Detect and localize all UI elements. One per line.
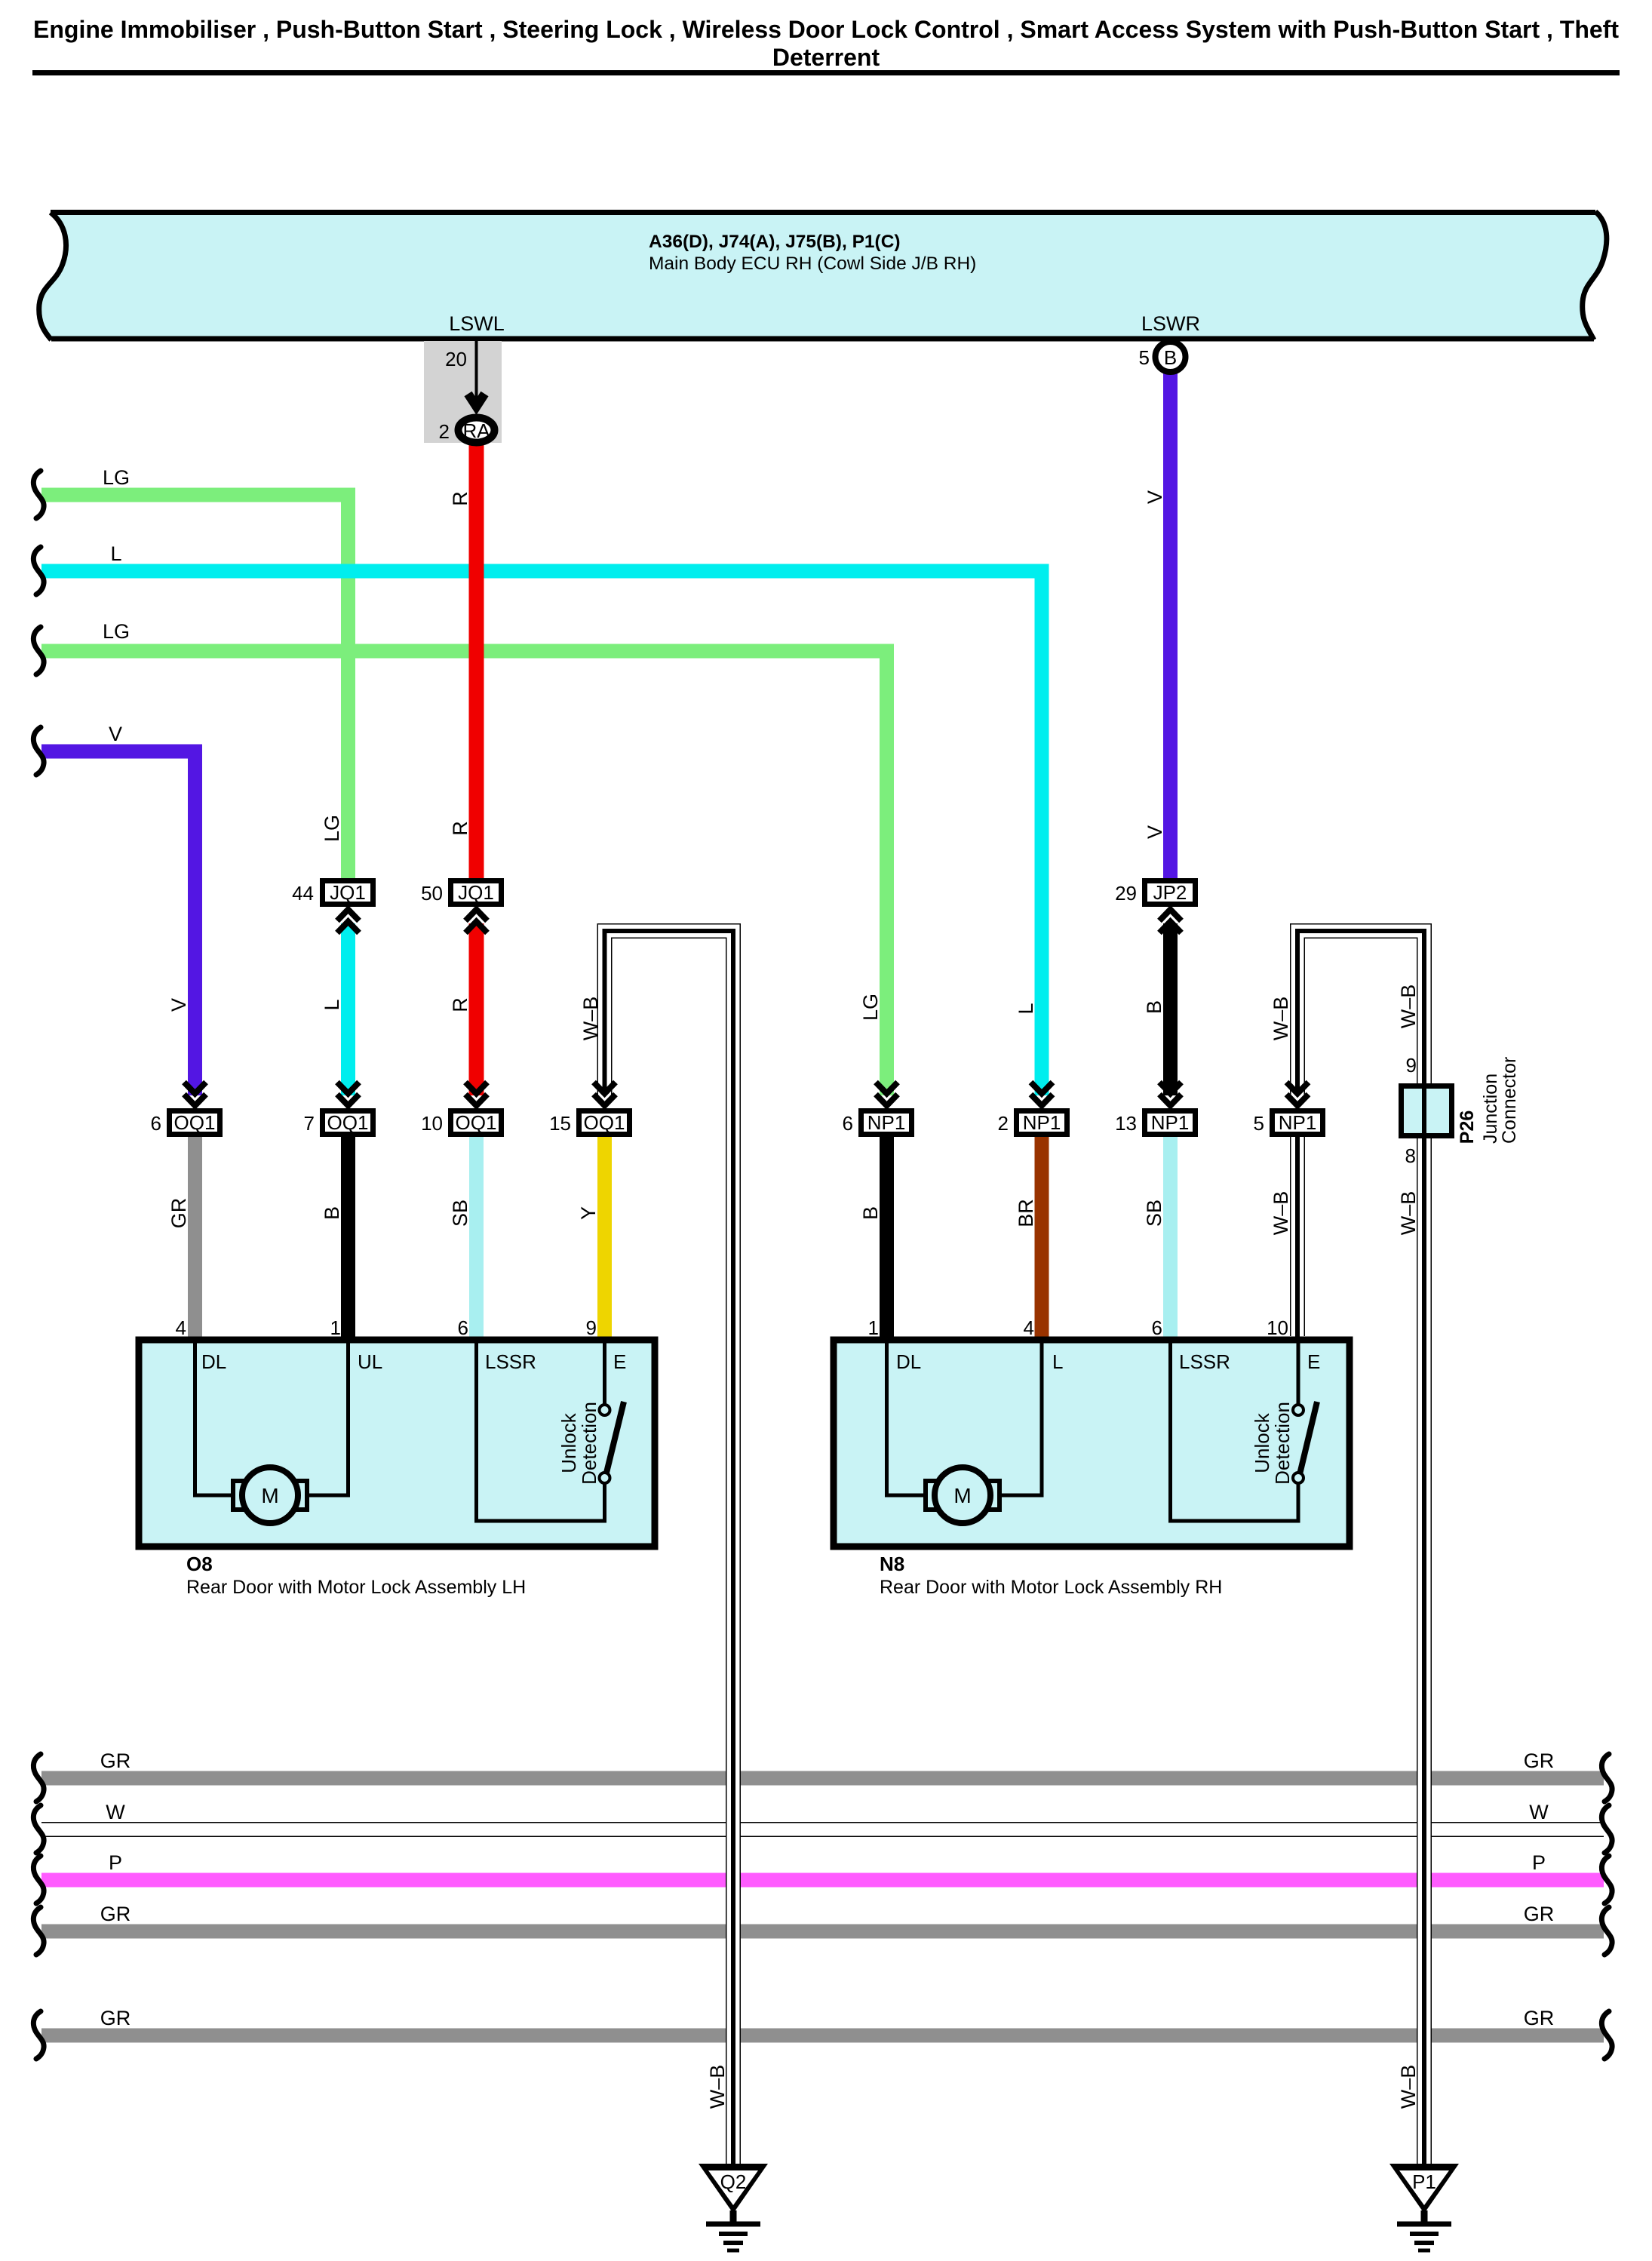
svg-text:6: 6: [1152, 1316, 1162, 1339]
break symbol GR2 right: [1601, 1907, 1612, 1955]
N8 terminal L line: [999, 1340, 1042, 1495]
svg-text:W–B: W–B: [706, 2065, 729, 2109]
wire GR horizontal bottom 1: [41, 1771, 1604, 1786]
svg-text:P: P: [1532, 1851, 1546, 1874]
svg-text:6: 6: [151, 1112, 161, 1135]
component N8 Rear Door with Motor Lock Assembly RH: [834, 1316, 1350, 1598]
svg-text:LSWL: LSWL: [449, 312, 505, 335]
svg-text:29: 29: [1115, 882, 1137, 905]
svg-text:NP1: NP1: [1023, 1111, 1061, 1134]
svg-text:9: 9: [1406, 1054, 1417, 1077]
LSWR terminal drop: connector B pin 5: [1139, 342, 1186, 372]
svg-text:Engine Immobiliser , Push-Butt: Engine Immobiliser , Push-Button Start ,…: [33, 16, 1619, 43]
svg-text:SB: SB: [1143, 1200, 1165, 1227]
svg-text:B: B: [321, 1206, 343, 1220]
svg-text:13: 13: [1115, 1112, 1137, 1135]
svg-text:DL: DL: [201, 1350, 226, 1373]
svg-text:V: V: [1144, 490, 1166, 504]
svg-text:9: 9: [586, 1316, 597, 1339]
svg-text:LSSR: LSSR: [1179, 1350, 1230, 1373]
svg-text:UnlockDetection: UnlockDetection: [557, 1402, 600, 1485]
svg-text:5: 5: [1254, 1112, 1264, 1135]
svg-text:7: 7: [304, 1112, 315, 1135]
svg-text:JQ1: JQ1: [330, 881, 366, 904]
junction connector P26: [1402, 1054, 1521, 1167]
svg-text:L: L: [110, 542, 121, 565]
svg-text:R: R: [449, 997, 471, 1012]
svg-text:10: 10: [1267, 1316, 1288, 1339]
wire GR below OQ1-6 to O8 pin 4: [188, 1136, 202, 1340]
svg-text:R: R: [449, 821, 471, 836]
svg-text:OQ1: OQ1: [327, 1111, 369, 1134]
svg-text:W–B: W–B: [1397, 985, 1420, 1029]
svg-text:E: E: [613, 1350, 626, 1373]
svg-text:5: 5: [1139, 346, 1150, 369]
svg-text:W–B: W–B: [1270, 1191, 1292, 1236]
svg-text:LSWR: LSWR: [1141, 312, 1200, 335]
ground P1: [1389, 2164, 1459, 2250]
wire P horizontal: [41, 1873, 1604, 1888]
svg-text:Main Body ECU RH (Cowl Side J/: Main Body ECU RH (Cowl Side J/B RH): [649, 253, 976, 274]
wire R between JQ1-50 and OQ1-10: [469, 923, 484, 1095]
break symbol V left: [33, 727, 44, 775]
wire V horizontal to OQ1-6: [41, 751, 195, 1095]
ECU box Main Body ECU RH A36(D) J74(A) J75(B) P1(C): [39, 212, 1607, 340]
break symbol GR3 left: [33, 2011, 44, 2059]
svg-text:6: 6: [458, 1316, 468, 1339]
break symbol W left: [33, 1805, 44, 1853]
svg-text:L: L: [321, 999, 343, 1010]
svg-text:GR: GR: [100, 1750, 131, 1772]
connector JQ1 pin 50: [421, 881, 501, 933]
svg-text:B: B: [1164, 346, 1177, 369]
wire LG horizontal 2 to NP1-6: [41, 651, 887, 1095]
wire Y below OQ1-15 to O8 pin 9: [597, 1136, 612, 1340]
svg-text:P1: P1: [1412, 2170, 1436, 2193]
svg-text:W–B: W–B: [1397, 1191, 1420, 1236]
svg-text:Rear Door with Motor Lock Asse: Rear Door with Motor Lock Assembly RH: [880, 1577, 1222, 1598]
break symbol W right: [1601, 1805, 1612, 1853]
svg-text:4: 4: [176, 1316, 186, 1339]
svg-text:LSSR: LSSR: [485, 1350, 536, 1373]
svg-text:Y: Y: [577, 1206, 600, 1220]
svg-text:L: L: [1015, 1003, 1037, 1014]
wire V vertical from LSWR B to JP2: [1163, 373, 1178, 878]
title rule: [32, 70, 1620, 75]
svg-text:LG: LG: [321, 815, 343, 842]
svg-text:P: P: [109, 1851, 122, 1874]
svg-text:GR: GR: [1524, 1750, 1555, 1772]
svg-text:R: R: [449, 491, 471, 506]
N8 motor M: [926, 1467, 999, 1523]
break symbol L left: [33, 547, 44, 594]
svg-text:OQ1: OQ1: [174, 1111, 216, 1134]
svg-text:GR: GR: [1524, 1903, 1555, 1925]
svg-text:6: 6: [843, 1112, 853, 1135]
wire B below NP1-6 to N8 pin 1: [880, 1136, 894, 1343]
svg-text:V: V: [167, 998, 190, 1012]
svg-text:LG: LG: [103, 620, 130, 643]
svg-text:15: 15: [549, 1112, 571, 1135]
svg-text:LG: LG: [859, 994, 882, 1021]
break symbol GR2 left: [33, 1907, 44, 1955]
wire L horizontal to NP1-2: [41, 571, 1042, 1095]
svg-text:NP1: NP1: [867, 1111, 906, 1134]
svg-text:Q2: Q2: [720, 2170, 747, 2193]
svg-text:O8: O8: [186, 1553, 213, 1575]
svg-text:Rear Door with Motor Lock Asse: Rear Door with Motor Lock Assembly LH: [186, 1577, 526, 1598]
svg-text:V: V: [109, 723, 122, 745]
svg-text:GR: GR: [167, 1198, 190, 1229]
connector OQ1 pin 7: [304, 1083, 373, 1135]
ground Q2: [699, 2164, 768, 2250]
svg-text:BR: BR: [1015, 1199, 1037, 1227]
svg-text:W: W: [1529, 1801, 1549, 1823]
connector JP2 pin 29: [1115, 881, 1195, 933]
wire LG horizontal 1 to JQ1-44: [41, 495, 349, 878]
svg-text:1: 1: [330, 1316, 341, 1339]
svg-text:W–B: W–B: [579, 997, 602, 1041]
wire SB below OQ1-10 to O8 pin 6: [469, 1136, 484, 1340]
connector JQ1 pin 44: [292, 881, 373, 933]
connector OQ1 pin 6: [151, 1083, 220, 1135]
svg-text:W–B: W–B: [1397, 2065, 1420, 2109]
wire W-B loop from OQ1-15 to ground Q2: [605, 931, 734, 2164]
svg-text:N8: N8: [880, 1553, 904, 1575]
wire W horizontal: [41, 1822, 1604, 1837]
svg-text:44: 44: [292, 882, 314, 905]
svg-text:JP2: JP2: [1153, 881, 1187, 904]
svg-text:NP1: NP1: [1279, 1111, 1317, 1134]
connector NP1 pin 2: [998, 1083, 1067, 1135]
break symbol GR1 right: [1601, 1754, 1612, 1802]
svg-text:1: 1: [868, 1316, 879, 1339]
connector OQ1 pin 10: [421, 1083, 501, 1135]
svg-text:GR: GR: [1524, 2007, 1555, 2029]
svg-text:2: 2: [439, 420, 450, 443]
LSWL terminal drop: shaded area, pin 20 arrow, connector RA pin 2: [424, 341, 502, 443]
svg-text:NP1: NP1: [1151, 1111, 1190, 1134]
N8 terminal DL line: [887, 1340, 926, 1495]
O8 terminal DL line: [195, 1340, 234, 1495]
svg-text:JQ1: JQ1: [458, 881, 494, 904]
break symbol P left: [33, 1856, 44, 1903]
wire GR horizontal bottom 2: [41, 1925, 1604, 1939]
O8 E line with unlock detection switch: [603, 1340, 606, 1405]
connector NP1 pin 13: [1115, 1083, 1195, 1135]
svg-text:L: L: [1052, 1350, 1063, 1373]
connector OQ1 pin 15: [549, 1083, 629, 1135]
wire GR horizontal bottom 3: [41, 2029, 1604, 2043]
wire SB below NP1-13 to N8 pin 6: [1163, 1136, 1178, 1340]
O8 motor M: [233, 1467, 307, 1523]
svg-text:E: E: [1307, 1350, 1320, 1373]
svg-text:A36(D), J74(A), J75(B), P1(C): A36(D), J74(A), J75(B), P1(C): [649, 232, 901, 252]
wire W-B loop from NP1-5 through P26 to ground P1: [1297, 931, 1424, 2164]
break symbol LG1 left: [33, 471, 44, 518]
connector NP1 pin 5: [1254, 1083, 1323, 1135]
svg-text:Deterrent: Deterrent: [772, 44, 880, 71]
svg-text:10: 10: [421, 1112, 443, 1135]
svg-text:W–B: W–B: [1270, 997, 1292, 1041]
svg-text:P26: P26: [1457, 1111, 1478, 1144]
wire W-B stub below NP1-5 to N8 pin 10: [1290, 1136, 1305, 1338]
svg-text:LG: LG: [103, 466, 130, 489]
svg-text:8: 8: [1405, 1144, 1416, 1167]
O8 terminal UL line: [307, 1340, 349, 1495]
wire B below OQ1-7 to O8 pin 1: [341, 1136, 355, 1343]
wire R vertical from RA to JQ1-50: [469, 441, 484, 878]
wire L between JQ1-44 and OQ1-7: [341, 923, 355, 1095]
break symbol P right: [1601, 1856, 1612, 1903]
svg-text:4: 4: [1024, 1316, 1034, 1339]
svg-text:20: 20: [445, 348, 467, 370]
break symbol GR1 left: [33, 1754, 44, 1802]
svg-text:V: V: [1144, 825, 1166, 839]
O8 LSSR line: [477, 1340, 605, 1521]
svg-text:B: B: [859, 1206, 882, 1220]
svg-text:2: 2: [998, 1112, 1009, 1135]
svg-text:W: W: [106, 1801, 125, 1823]
wire BR below NP1-2 to N8 pin 4: [1035, 1136, 1049, 1340]
svg-text:OQ1: OQ1: [584, 1111, 625, 1134]
svg-text:RA: RA: [462, 419, 490, 442]
wire B between JP2 and NP1-13: [1163, 923, 1178, 1095]
connector NP1 pin 6: [843, 1083, 912, 1135]
N8 E line with unlock detection switch: [1297, 1340, 1300, 1405]
svg-text:B: B: [1143, 1000, 1165, 1014]
svg-text:50: 50: [421, 882, 443, 905]
svg-text:UL: UL: [358, 1350, 382, 1373]
break symbol LG2 left: [33, 627, 44, 674]
N8 LSSR line: [1171, 1340, 1299, 1521]
svg-text:SB: SB: [449, 1200, 471, 1227]
svg-text:GR: GR: [100, 2007, 131, 2029]
component O8 Rear Door with Motor Lock Assembly LH: [139, 1316, 655, 1598]
break symbol GR3 right: [1601, 2011, 1612, 2059]
svg-text:DL: DL: [896, 1350, 921, 1373]
svg-text:GR: GR: [100, 1903, 131, 1925]
svg-text:UnlockDetection: UnlockDetection: [1251, 1402, 1294, 1485]
svg-text:OQ1: OQ1: [456, 1111, 497, 1134]
